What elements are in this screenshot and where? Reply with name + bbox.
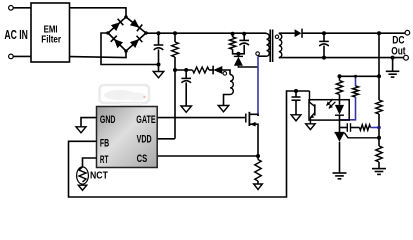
svg-text:GND: GND xyxy=(100,114,116,126)
svg-text:FB: FB xyxy=(100,138,109,150)
svg-text:GATE: GATE xyxy=(136,114,155,126)
svg-text:VDD: VDD xyxy=(137,133,152,145)
svg-text:AC IN: AC IN xyxy=(4,27,28,42)
svg-text:NCT: NCT xyxy=(90,170,108,181)
svg-text:RT: RT xyxy=(100,154,109,166)
svg-text:Out: Out xyxy=(391,46,406,58)
svg-text:CS: CS xyxy=(137,153,148,165)
svg-text:Filter: Filter xyxy=(41,35,61,46)
